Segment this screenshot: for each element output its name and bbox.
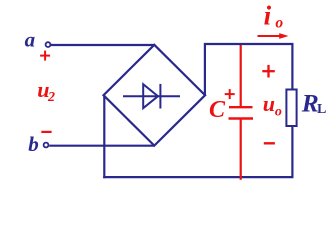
io current arrow: [258, 35, 282, 37]
svg-text:L: L: [317, 102, 326, 117]
wire bridge left vertex down to bottom rail: [103, 95, 105, 178]
diode D triangle: [143, 84, 158, 108]
capacitor C bottom lead: [240, 119, 242, 180]
wire bridge right vertex up, top rail, down to RL: [205, 44, 293, 95]
diode D inside bridge: lead: [123, 95, 180, 97]
bridge rectifier diamond: [104, 45, 206, 146]
wire a to bridge top: [51, 44, 155, 46]
terminal a: [46, 42, 51, 47]
capacitor C top lead: [240, 44, 242, 107]
polarity - for uo: [264, 142, 275, 144]
svg-text:a: a: [25, 27, 35, 51]
polarity + for capacitor: [225, 89, 235, 99]
svg-text:2: 2: [47, 90, 55, 105]
wire b to bridge bottom: [49, 145, 154, 147]
svg-text:i: i: [264, 1, 272, 31]
polarity + for uo: [262, 65, 275, 78]
svg-text:o: o: [275, 14, 283, 31]
wire RL bottom to bottom rail: [291, 126, 293, 177]
capacitor C top plate: [229, 106, 253, 108]
svg-text:u: u: [263, 91, 275, 116]
terminal b: [44, 143, 49, 148]
bottom rail wire: [103, 176, 293, 178]
polarity - for u2: [41, 131, 51, 133]
svg-text:b: b: [28, 132, 39, 156]
polarity + for u2: [40, 51, 50, 61]
diode D cathode bar: [159, 84, 161, 109]
capacitor C bottom plate: [229, 117, 254, 119]
svg-text:C: C: [209, 97, 226, 123]
svg-text:o: o: [275, 105, 282, 120]
load resistor RL body: [286, 90, 296, 127]
